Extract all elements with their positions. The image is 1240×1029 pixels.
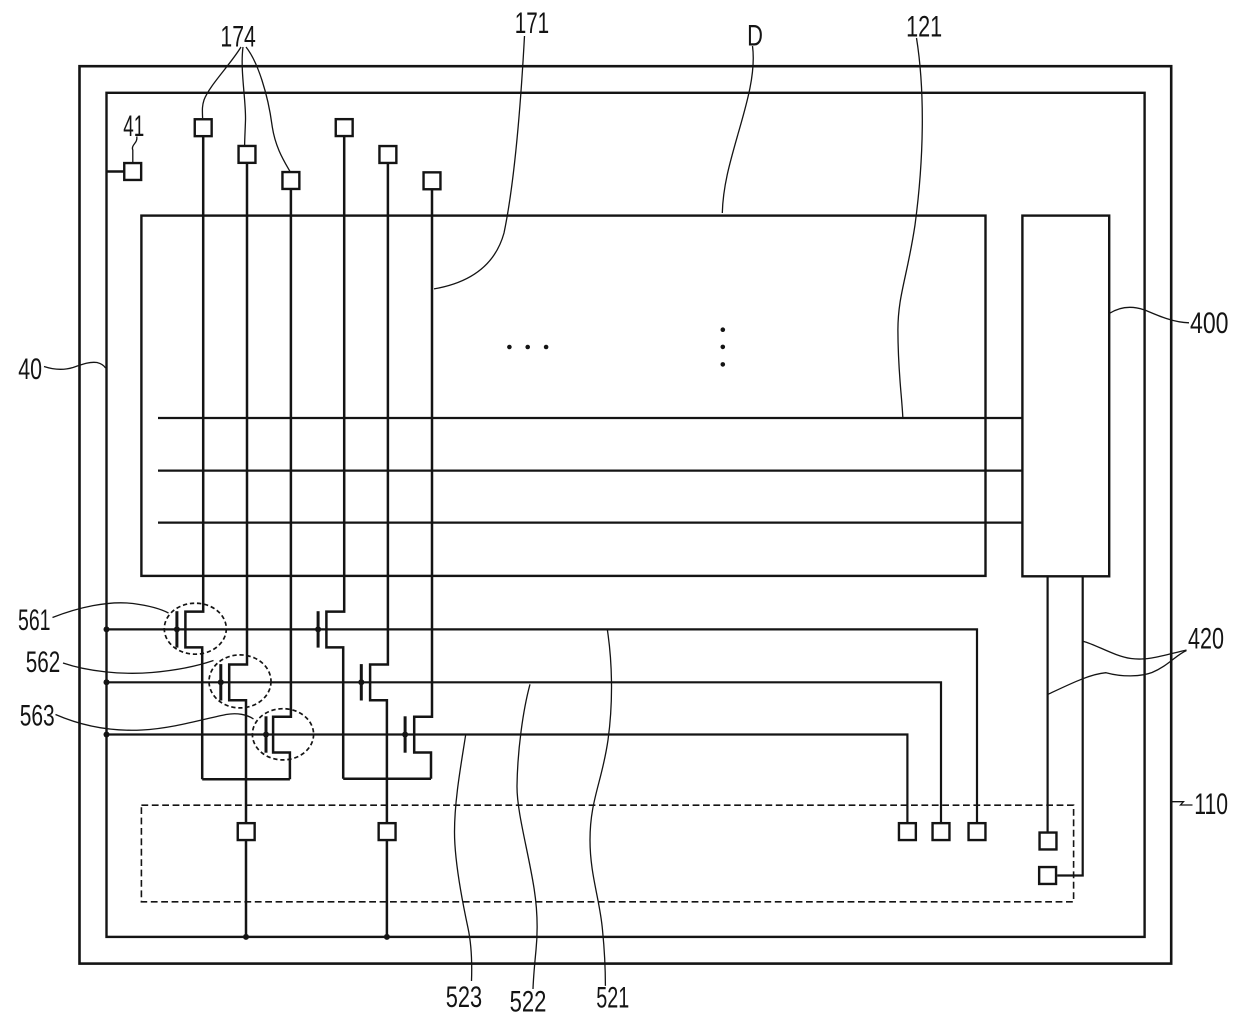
leader 171 [434,36,525,289]
leader 174 to pad2 [242,47,245,146]
data line 121 row 3 [158,521,1022,523]
svg-text:D: D [747,20,763,53]
leader 522 [517,684,537,989]
pad 174-2 [239,146,256,163]
wire: pad 41 to inner frame [107,170,125,172]
dashed circle 562 [209,655,271,708]
pad 174-3 [282,172,299,189]
pad 174-4 [336,119,353,136]
leader 41 [132,137,137,163]
svg-text:400: 400 [1190,307,1229,340]
test data line 171-6 with TFT channel jog [414,190,432,779]
pad 420a [1040,833,1057,850]
junction node gate 561 [174,626,180,632]
junction node gate 562 [218,679,224,685]
pad 41 [124,163,141,180]
gate test line 522 [107,682,942,823]
pad 174-1 [195,119,212,136]
gate electrode of TFT 563 [265,716,268,752]
wire: 420 lead b [1057,577,1083,876]
junction node line5 / bottom frame [384,934,390,940]
wire: U link lines 1-3 [202,778,290,781]
gate test line 523 [107,735,908,824]
driver block 400 [1022,216,1109,577]
svg-text:561: 561 [18,604,51,637]
junction node line2 / bottom frame [243,934,249,940]
leader 561 [53,603,169,618]
svg-text:523: 523 [446,981,482,1014]
bottom pad line2 [238,823,255,840]
leader 400 [1109,307,1189,323]
leader 562 [63,661,214,674]
leader 523 [455,735,472,981]
leader 420 upper [1083,641,1187,659]
leader 174 to pad1 [202,47,241,118]
pad 420b [1039,867,1056,884]
bottom pad 521 [969,823,986,840]
gate electrode of TFT 4 [317,611,320,647]
dashed circle 561 [164,603,226,654]
junction node gate line 1 / frame [104,626,110,632]
bottom pad 522 [933,823,950,840]
svg-text:41: 41 [123,110,144,143]
bottom pad line5 [379,823,396,840]
gate electrode of TFT 6 [404,716,407,752]
test data line 171-1 with TFT 561 channel jog [185,137,203,780]
junction node gate line 2 / frame [104,679,110,685]
leader 420 lower [1048,651,1186,695]
svg-text:563: 563 [20,700,55,733]
display area D [141,216,985,576]
data line 121 row 2 [158,470,1022,472]
wire: U link lines 4-6 [343,778,431,781]
wire: 420 lead a [1046,577,1048,833]
leader D [722,46,753,213]
outer frame 40 [80,66,1172,963]
junction node gate TFT6 [402,732,408,738]
leader 174 to pad3 [246,47,290,172]
svg-text:522: 522 [510,985,547,1018]
leader 563 [56,714,254,731]
junction node gate TFT5 [358,679,364,685]
junction node gate line 3 / frame [104,732,110,738]
gate electrode of TFT 5 [360,664,363,700]
inner frame (panel boundary 110) [107,93,1145,937]
leader 110 [1171,802,1193,805]
ellipsis dots horizontal [507,345,512,350]
svg-text:40: 40 [18,353,42,386]
svg-text:110: 110 [1194,788,1228,821]
ellipsis dots vertical [721,327,726,332]
leader 121 [898,38,922,417]
dashed pad region 110 [141,805,1073,902]
svg-text:174: 174 [220,21,255,54]
test data line 171-2 with TFT 562 channel jog [229,164,247,937]
bottom pad 523 [899,823,916,840]
test data line 171-4 with TFT channel jog [326,137,344,779]
svg-text:171: 171 [515,7,550,40]
leader 40 [44,362,106,369]
test data line 171-5 with TFT channel jog [370,164,388,937]
gate test line 521 [107,629,978,823]
test data line 171-3 with TFT 563 channel jog [273,190,291,780]
leader 521 [590,629,612,986]
pad 174-5 [379,146,396,163]
svg-text:521: 521 [596,982,629,1015]
svg-text:121: 121 [906,10,942,43]
gate electrode of TFT 562 [219,664,222,700]
junction node gate 563 [263,732,269,738]
pad 174-6 [424,172,441,189]
dashed circle 563 [252,709,313,760]
svg-text:562: 562 [26,646,61,679]
svg-text:420: 420 [1188,622,1224,655]
junction node gate TFT4 [315,626,321,632]
gate electrode of TFT 561 [175,611,178,647]
data line 121 row 1 [158,417,1022,419]
